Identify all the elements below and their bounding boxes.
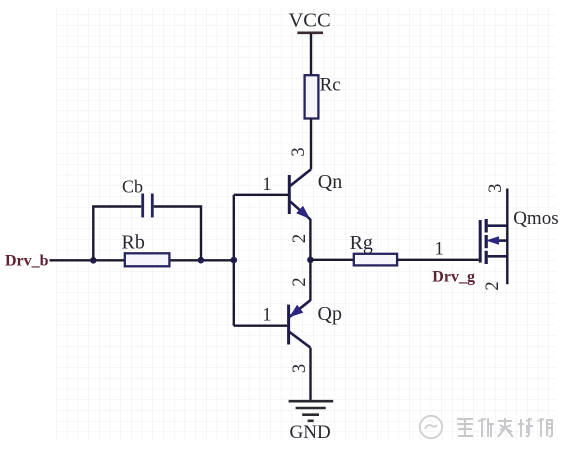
svg-text:1: 1 [435,240,444,260]
svg-text:Cb: Cb [122,176,143,196]
resistor Rc [305,75,341,119]
wire Qp emitter [309,260,311,301]
wire Qp collector to ground [309,348,311,400]
junction emitters/Rg [307,257,314,264]
svg-text:2: 2 [290,234,310,243]
wire Cb branch left [93,207,141,261]
junction Rb/Cb right [198,257,205,264]
wire Qn emitter down [309,219,311,260]
wire base bus vertical [233,195,235,326]
svg-text:2: 2 [290,277,310,286]
watermark logo circle [420,416,442,438]
wire Cb branch right [154,207,201,260]
svg-text:Drv_b: Drv_b [5,253,49,270]
svg-text:Qp: Qp [318,303,342,325]
svg-text:1: 1 [262,175,271,195]
svg-text:Rc: Rc [320,75,341,96]
resistor Rg [350,232,397,266]
svg-text:Rg: Rg [350,232,373,254]
resistor Rb [122,232,170,267]
junction base bus / input [231,257,238,264]
svg-text:GND: GND [290,422,331,443]
transistor Qn [289,169,311,219]
svg-text:3: 3 [486,184,506,193]
transistor Qmos [480,189,507,285]
ground GND [289,401,334,443]
svg-text:1: 1 [262,306,271,326]
wire Qp base [234,325,287,327]
svg-text:Qmos: Qmos [513,208,558,229]
power symbol VCC [289,10,331,33]
wire input Drv_b [50,259,234,261]
svg-text:Rb: Rb [122,232,145,254]
wire Rc to Qn collector [310,119,312,170]
junction Rb/Cb left [90,257,97,264]
capacitor Cb [122,176,152,217]
wire Rg to Qmos gate [397,259,479,261]
transistor Qp [289,300,311,347]
svg-text:Qn: Qn [318,171,342,193]
svg-text:Drv_g: Drv_g [432,269,475,286]
wire emitters to Rg [310,259,354,261]
watermark text [457,418,553,437]
wire Qn base [234,194,288,196]
svg-text:VCC: VCC [289,10,331,32]
wire VCC to Rc [310,34,312,76]
svg-text:3: 3 [290,364,310,373]
svg-text:2: 2 [483,281,503,290]
svg-text:3: 3 [289,147,309,156]
